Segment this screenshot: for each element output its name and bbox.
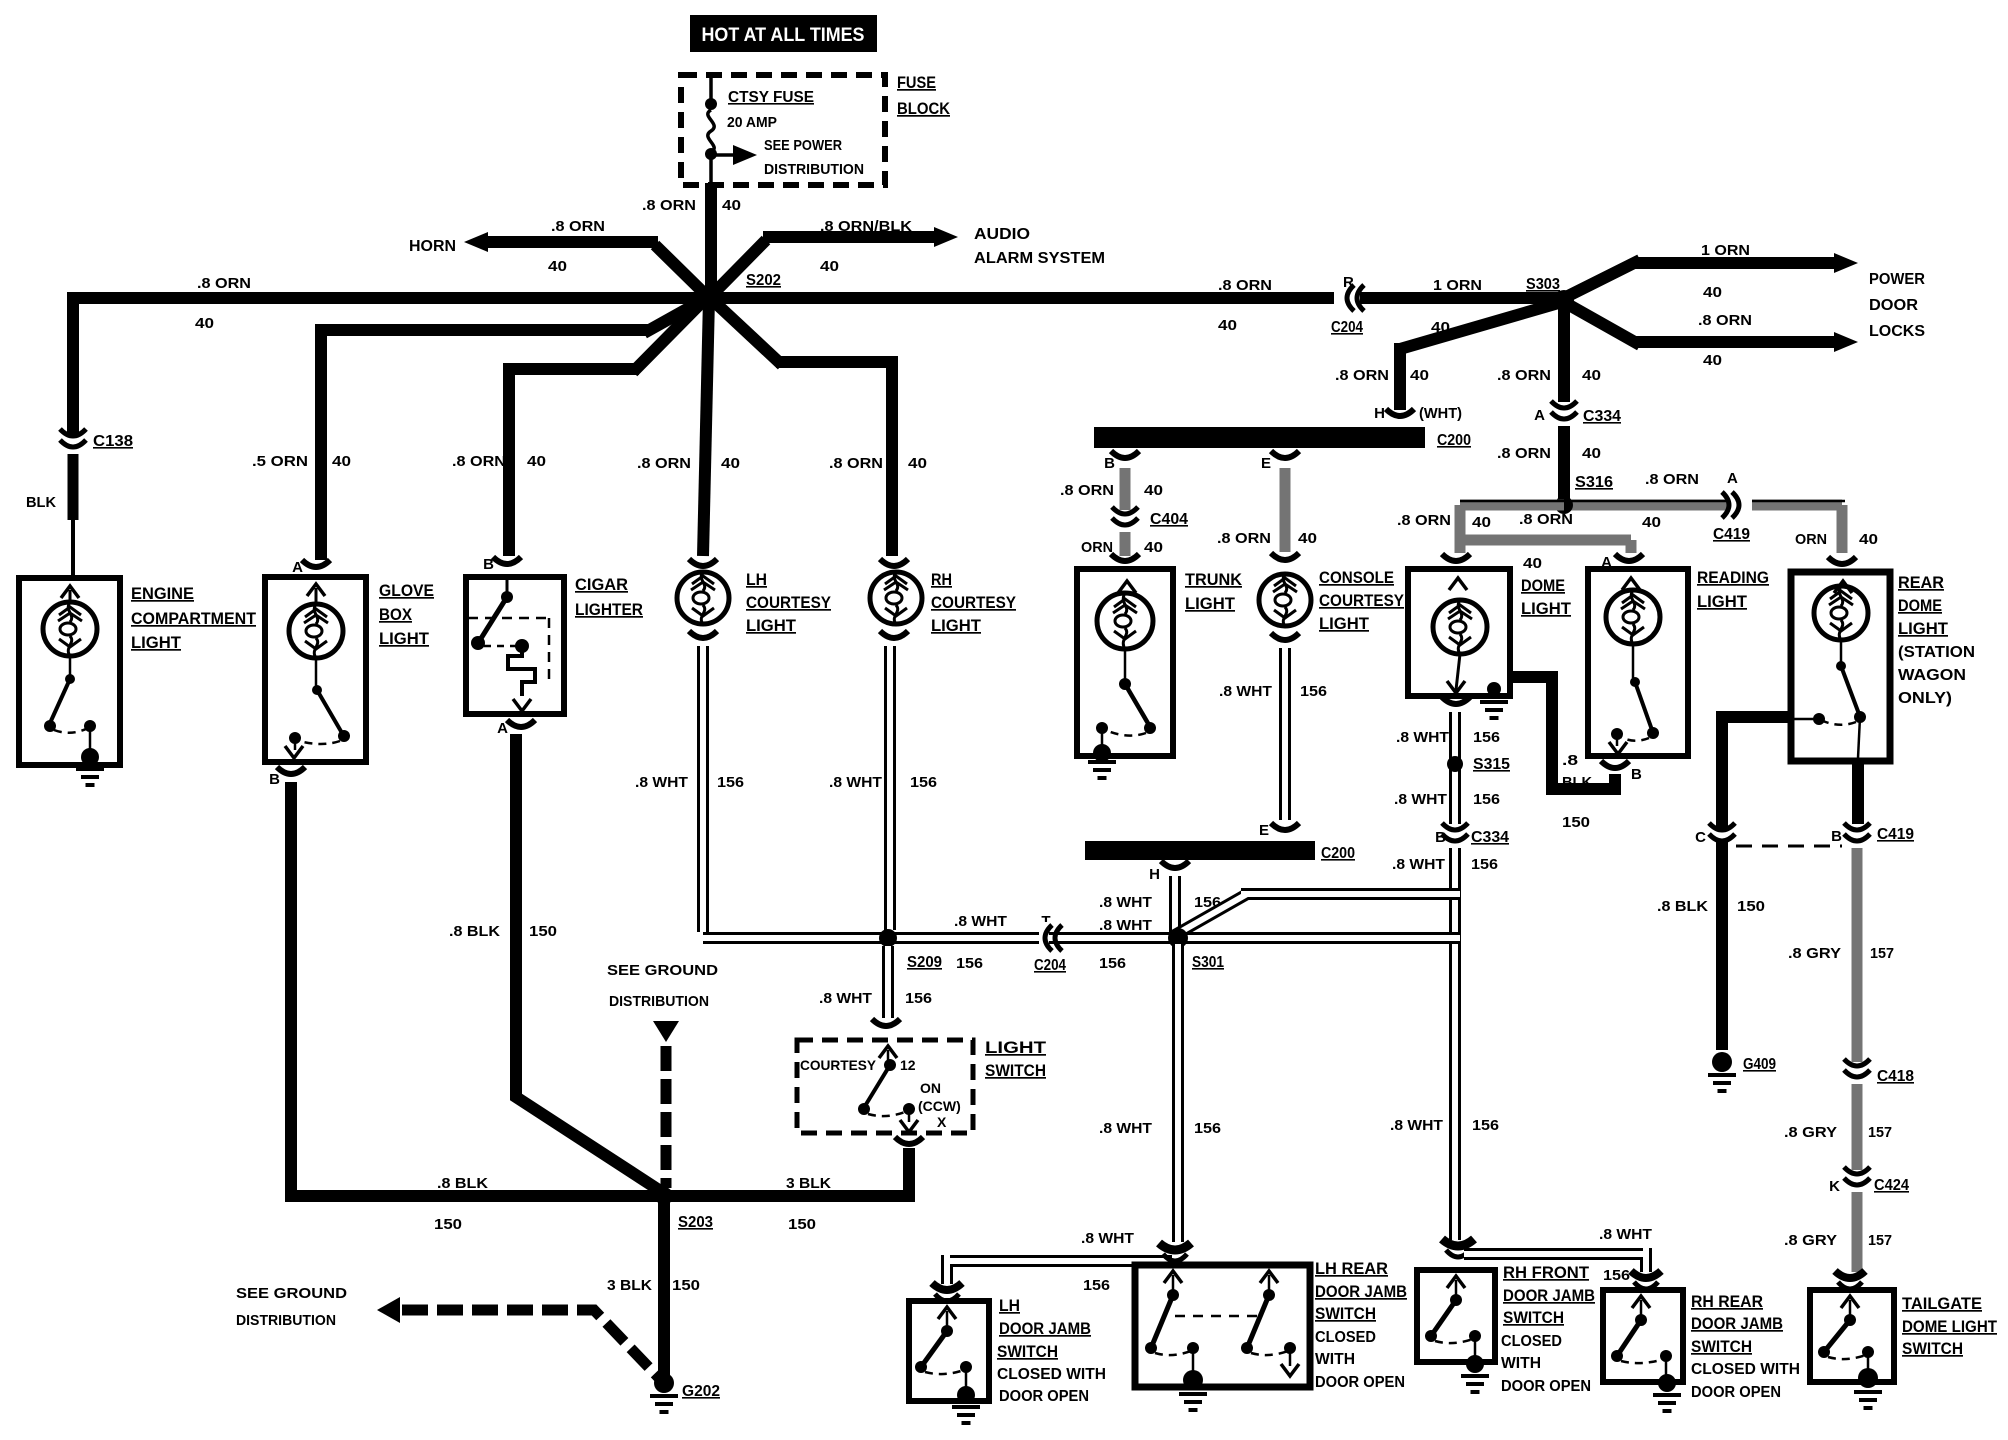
connector light switch input	[872, 1019, 900, 1026]
svg-text:150: 150	[1737, 898, 1765, 915]
svg-text:H: H	[1374, 405, 1385, 422]
svg-text:B: B	[1435, 829, 1446, 846]
LH rear door jamb switch	[1135, 1265, 1310, 1387]
wire ORN 40 C419 to rear dome light	[1752, 505, 1842, 553]
svg-text:156: 156	[717, 774, 744, 791]
svg-text:.8 BLK: .8 BLK	[1657, 898, 1708, 915]
wire rear dome light pin B stub	[1852, 758, 1864, 824]
wire 1 ORN 40 S303 to power door locks	[1562, 260, 1836, 299]
svg-text:CLOSED: CLOSED	[1315, 1329, 1376, 1346]
svg-text:SWITCH: SWITCH	[1503, 1308, 1564, 1327]
connector reading light pin B	[1601, 761, 1629, 768]
svg-text:.8 ORN: .8 ORN	[1497, 445, 1551, 462]
svg-text:BLK: BLK	[1562, 774, 1592, 791]
connector C200 lower bar	[1271, 823, 1299, 830]
svg-text:40: 40	[1472, 514, 1491, 531]
svg-text:A: A	[497, 720, 508, 737]
svg-text:COURTESY: COURTESY	[746, 593, 832, 612]
svg-text:DOOR JAMB: DOOR JAMB	[1691, 1314, 1783, 1333]
svg-text:156: 156	[1300, 683, 1327, 700]
wire .8 ORN 40 S202 to LH courtesy light	[703, 298, 709, 556]
svg-text:156: 156	[1194, 1120, 1221, 1137]
ground engine compartment light	[76, 769, 104, 785]
svg-text:C419: C419	[1877, 826, 1914, 843]
svg-text:40: 40	[722, 197, 741, 214]
ground G409	[1712, 1052, 1732, 1072]
svg-text:.8 ORN/BLK: .8 ORN/BLK	[820, 218, 912, 235]
svg-text:(WHT): (WHT)	[1419, 405, 1462, 422]
wire .8 WHT 156 S301 down to LH rear door jamb switch	[1172, 944, 1184, 1242]
wire .8 GRY 157 C418 to C424	[1852, 1084, 1863, 1170]
svg-text:40: 40	[548, 258, 567, 275]
svg-text:B: B	[269, 771, 280, 788]
wire .8 ORN 40 to reading light pin A	[1460, 540, 1631, 553]
svg-text:X: X	[937, 1114, 947, 1130]
svg-text:.8 ORN: .8 ORN	[1060, 482, 1114, 499]
svg-text:G409: G409	[1743, 1056, 1776, 1073]
wire .8 BLK 150 rear dome light to G409	[1722, 711, 1790, 1050]
svg-text:CIGAR: CIGAR	[575, 575, 628, 594]
svg-text:BLOCK: BLOCK	[897, 99, 951, 118]
svg-text:ON: ON	[920, 1080, 941, 1096]
wire .8 WHT 156 S315 to C334 B	[1449, 768, 1461, 824]
svg-text:ORN: ORN	[1795, 531, 1827, 548]
ground LH door jamb switch	[952, 1407, 980, 1423]
connector C200 pin E arcs	[1271, 451, 1299, 458]
svg-text:DISTRIBUTION: DISTRIBUTION	[236, 1312, 336, 1329]
svg-text:C200: C200	[1321, 845, 1355, 862]
svg-text:CLOSED WITH: CLOSED WITH	[1691, 1361, 1800, 1378]
svg-text:HOT AT ALL TIMES: HOT AT ALL TIMES	[702, 25, 865, 46]
svg-text:AUDIO: AUDIO	[974, 226, 1030, 243]
svg-text:.8 WHT: .8 WHT	[1099, 894, 1152, 911]
svg-text:.8 ORN: .8 ORN	[197, 275, 251, 292]
svg-text:S301: S301	[1192, 954, 1224, 971]
connector RH rear door jamb switch	[1631, 1271, 1661, 1278]
svg-text:LIGHT: LIGHT	[379, 629, 430, 648]
svg-text:.8 WHT: .8 WHT	[1099, 917, 1152, 934]
svg-text:.8 WHT: .8 WHT	[1390, 1117, 1443, 1134]
svg-text:40: 40	[1642, 514, 1661, 531]
svg-text:150: 150	[788, 1216, 816, 1233]
svg-text:DOOR OPEN: DOOR OPEN	[1315, 1374, 1405, 1391]
wire .8 WHT 156 RH courtesy to S209	[884, 646, 896, 930]
svg-text:C204: C204	[1034, 957, 1066, 974]
svg-text:.8 WHT: .8 WHT	[1599, 1226, 1652, 1243]
svg-text:S203: S203	[678, 1214, 713, 1231]
svg-text:S209: S209	[907, 954, 942, 971]
LH door jamb switch	[909, 1301, 989, 1401]
svg-text:157: 157	[1870, 945, 1894, 962]
svg-text:.8 WHT: .8 WHT	[1219, 683, 1272, 700]
svg-text:SWITCH: SWITCH	[985, 1061, 1046, 1080]
svg-text:DOOR OPEN: DOOR OPEN	[1501, 1378, 1591, 1395]
svg-text:SWITCH: SWITCH	[997, 1342, 1058, 1361]
svg-text:40: 40	[1523, 555, 1542, 572]
svg-text:DISTRIBUTION: DISTRIBUTION	[609, 993, 709, 1010]
svg-text:40: 40	[1582, 445, 1601, 462]
connector C419 pin C	[1706, 831, 1738, 841]
splice S316 and gray wire to C419 A	[1564, 500, 1728, 511]
connector C200 pin B arcs	[1111, 451, 1139, 458]
connector C424	[1841, 1175, 1873, 1185]
wire ORN 40 C404 to trunk light	[1120, 532, 1131, 556]
svg-text:.8 GRY: .8 GRY	[1784, 1124, 1837, 1141]
wire .8 WHT 156 branch to LH door jamb switch	[947, 1255, 1172, 1284]
svg-text:SEE GROUND: SEE GROUND	[607, 962, 718, 979]
svg-text:.8: .8	[1562, 752, 1578, 769]
svg-text:COURTESY: COURTESY	[800, 1057, 877, 1073]
svg-text:156: 156	[1473, 729, 1500, 746]
console courtesy light lamp	[1271, 553, 1299, 560]
svg-text:157: 157	[1868, 1124, 1892, 1141]
svg-text:RH REAR: RH REAR	[1691, 1292, 1763, 1311]
svg-text:TAILGATE: TAILGATE	[1902, 1294, 1982, 1313]
ground G202	[654, 1373, 674, 1393]
connector C200 lower pin H arcs	[1161, 861, 1189, 868]
svg-text:.5 ORN: .5 ORN	[252, 453, 308, 470]
svg-text:40: 40	[1218, 317, 1237, 334]
ground dome light case	[1487, 682, 1501, 696]
wire .8 WHT 156 LH courtesy to S209	[703, 646, 884, 938]
svg-text:.8 WHT: .8 WHT	[819, 990, 872, 1007]
svg-text:DISTRIBUTION: DISTRIBUTION	[764, 161, 864, 178]
svg-text:DOME: DOME	[1521, 576, 1565, 595]
svg-text:S303: S303	[1526, 276, 1560, 293]
svg-text:LIGHTER: LIGHTER	[575, 600, 643, 619]
svg-text:DOOR JAMB: DOOR JAMB	[999, 1319, 1091, 1338]
ground LH rear door jamb switch	[1179, 1394, 1207, 1410]
svg-text:G202: G202	[682, 1383, 720, 1400]
svg-text:.8 ORN: .8 ORN	[1497, 367, 1551, 384]
svg-text:LH: LH	[746, 570, 767, 589]
connector LH door jamb switch	[932, 1283, 962, 1290]
svg-text:DOOR: DOOR	[1869, 297, 1918, 314]
svg-text:150: 150	[434, 1216, 462, 1233]
svg-text:K: K	[1829, 1178, 1840, 1195]
wire .8 ORN 40 S202 to cigar lighter	[509, 294, 710, 556]
svg-text:A: A	[1534, 407, 1545, 424]
wire .8 ORN 40 S303 to power door locks	[1562, 301, 1836, 345]
svg-text:LIGHT: LIGHT	[931, 616, 982, 635]
svg-text:12: 12	[900, 1057, 916, 1073]
wire .8 WHT 156 dome light to S315	[1449, 712, 1461, 760]
svg-text:R: R	[1343, 274, 1354, 291]
connector C418	[1841, 1067, 1873, 1077]
svg-text:156: 156	[1083, 1277, 1110, 1294]
svg-text:DOME: DOME	[1898, 596, 1942, 615]
svg-text:150: 150	[1562, 814, 1590, 831]
svg-text:S315: S315	[1473, 756, 1510, 773]
svg-text:COURTESY: COURTESY	[1319, 591, 1405, 610]
connector cigar lighter pin A	[507, 720, 535, 727]
wire .8 GRY 157 C424 to tailgate dome light switch	[1852, 1192, 1863, 1272]
svg-text:DOOR JAMB: DOOR JAMB	[1503, 1286, 1595, 1305]
svg-text:B: B	[1104, 455, 1115, 472]
svg-text:DOOR OPEN: DOOR OPEN	[1691, 1384, 1781, 1401]
svg-text:C: C	[1695, 829, 1706, 846]
glove box light fixture	[302, 560, 330, 567]
svg-text:C424: C424	[1874, 1177, 1909, 1194]
splice S209	[879, 929, 897, 947]
wire .8 WHT 156 C334 B to S301	[1449, 848, 1461, 890]
svg-text:C200: C200	[1437, 432, 1471, 449]
svg-text:POWER: POWER	[1869, 271, 1925, 288]
svg-text:H: H	[1149, 866, 1160, 883]
svg-text:.8 ORN: .8 ORN	[1217, 530, 1271, 547]
svg-text:DOOR OPEN: DOOR OPEN	[999, 1388, 1089, 1405]
wire .8 ORN 40 bus S202 to C204	[709, 292, 1334, 304]
svg-text:40: 40	[908, 455, 927, 472]
svg-text:.8 ORN: .8 ORN	[829, 455, 883, 472]
svg-text:40: 40	[1144, 539, 1163, 556]
svg-text:A: A	[1727, 470, 1738, 487]
svg-text:40: 40	[1298, 530, 1317, 547]
splice S202	[699, 288, 719, 308]
svg-text:ORN: ORN	[1081, 539, 1113, 556]
ground RH front door jamb switch	[1461, 1376, 1489, 1392]
light switch internals	[879, 1046, 897, 1058]
svg-text:1 ORN: 1 ORN	[1701, 242, 1750, 259]
svg-text:BOX: BOX	[379, 605, 413, 624]
svg-text:150: 150	[672, 1277, 700, 1294]
svg-text:LIGHT: LIGHT	[985, 1038, 1047, 1057]
connector light switch output	[895, 1137, 923, 1144]
svg-text:150: 150	[529, 923, 557, 940]
svg-text:C419: C419	[1713, 526, 1750, 543]
svg-text:RH FRONT: RH FRONT	[1503, 1263, 1590, 1282]
RH front door jamb switch	[1417, 1270, 1495, 1362]
svg-text:156: 156	[956, 955, 983, 972]
reading light fixture	[1588, 569, 1688, 756]
wire .8 ORN 40 C334 to S316	[1558, 426, 1570, 500]
wire .8 ORN/BLK 40 to audio alarm system	[706, 237, 936, 301]
svg-text:40: 40	[1410, 367, 1429, 384]
svg-text:3 BLK: 3 BLK	[607, 1277, 652, 1294]
wire 3 BLK 150 S203 to G202	[658, 1196, 670, 1378]
splice S203	[655, 1187, 673, 1205]
see ground distribution arrow and dashed wire to S203	[653, 1021, 679, 1042]
wire .8 ORN 40 main bus left S202 to C138 corner	[73, 292, 715, 437]
svg-text:.8 WHT: .8 WHT	[1392, 856, 1445, 873]
svg-text:COURTESY: COURTESY	[931, 593, 1017, 612]
wire .8 ORN 40 to HORN	[482, 242, 712, 301]
svg-text:CTSY FUSE: CTSY FUSE	[728, 89, 814, 106]
svg-text:LIGHT: LIGHT	[1319, 614, 1370, 633]
svg-text:.8 BLK: .8 BLK	[437, 1175, 488, 1192]
svg-text:C418: C418	[1877, 1068, 1914, 1085]
svg-text:.8 GRY: .8 GRY	[1788, 945, 1841, 962]
connector C419 pin A	[1735, 489, 1745, 521]
wire .8 WHT 156 S209 to light switch	[882, 946, 894, 1018]
trunk light fixture	[1077, 569, 1173, 756]
svg-text:LIGHT: LIGHT	[1185, 594, 1236, 613]
svg-text:LIGHT: LIGHT	[1521, 599, 1572, 618]
svg-text:.8 WHT: .8 WHT	[1394, 791, 1447, 808]
wire fuse output to see-power-distribution arrow	[711, 153, 733, 157]
svg-text:LIGHT: LIGHT	[1697, 592, 1748, 611]
ground trunk light	[1088, 762, 1116, 778]
svg-text:40: 40	[1859, 531, 1878, 548]
svg-text:REAR: REAR	[1898, 573, 1944, 592]
rear dome light fixture	[1791, 572, 1890, 761]
wire .8 ORN 40 S202 to RH courtesy light	[707, 295, 892, 556]
connector C200 upper bar	[1094, 427, 1425, 448]
svg-text:DOME LIGHT: DOME LIGHT	[1902, 1317, 1998, 1336]
wire .8 ORN 40 S202 to glove box light	[321, 295, 712, 560]
svg-text:.8 ORN: .8 ORN	[1698, 312, 1752, 329]
svg-text:TRUNK: TRUNK	[1185, 570, 1243, 589]
svg-text:ONLY): ONLY)	[1898, 690, 1952, 707]
svg-text:.8 WHT: .8 WHT	[954, 913, 1007, 930]
svg-text:.8 ORN: .8 ORN	[642, 197, 696, 214]
svg-text:SWITCH: SWITCH	[1902, 1339, 1963, 1358]
svg-text:C204: C204	[1331, 319, 1363, 336]
svg-text:.8 ORN: .8 ORN	[1397, 512, 1451, 529]
svg-text:ALARM SYSTEM: ALARM SYSTEM	[974, 250, 1105, 267]
svg-text:40: 40	[1144, 482, 1163, 499]
connector glove box light pin B	[277, 767, 305, 774]
LH courtesy light lamp	[689, 559, 717, 566]
svg-text:.8 WHT: .8 WHT	[1099, 1120, 1152, 1137]
wire .8 ORN 40 S303 to C200 pin H	[1400, 302, 1562, 410]
ground tailgate dome light switch	[1854, 1392, 1882, 1408]
wire .8 ORN 40 S316 to dome light	[1460, 505, 1564, 553]
connector C404	[1109, 515, 1141, 525]
svg-text:B: B	[1831, 828, 1842, 845]
svg-text:1 ORN: 1 ORN	[1433, 277, 1482, 294]
svg-text:40: 40	[332, 453, 351, 470]
wire .8 WHT 156 S209 to S301 via C204	[884, 932, 1178, 944]
svg-text:READING: READING	[1697, 568, 1769, 587]
svg-text:E: E	[1259, 822, 1269, 839]
svg-text:20 AMP: 20 AMP	[727, 114, 777, 131]
svg-text:.8 ORN: .8 ORN	[1645, 471, 1699, 488]
svg-text:.8 ORN: .8 ORN	[452, 453, 506, 470]
wire .8 WHT 156 to RH rear door jamb switch	[1464, 1248, 1646, 1272]
svg-text:.8 WHT: .8 WHT	[1081, 1230, 1134, 1247]
svg-text:B: B	[1631, 766, 1642, 783]
svg-text:BLK: BLK	[26, 494, 56, 511]
connector tailgate dome light switch	[1835, 1271, 1865, 1278]
wire .8 WHT 156 S301 to RH front door jamb switch	[1449, 886, 1461, 1240]
svg-text:40: 40	[527, 453, 546, 470]
svg-text:SEE POWER: SEE POWER	[764, 137, 842, 154]
svg-text:.8 WHT: .8 WHT	[829, 774, 882, 791]
svg-text:S316: S316	[1575, 474, 1613, 491]
ground RH rear door jamb switch	[1653, 1395, 1681, 1411]
connector C200 pin H arcs	[1386, 409, 1414, 416]
svg-text:LIGHT: LIGHT	[1898, 619, 1949, 638]
svg-text:HORN: HORN	[409, 238, 456, 255]
dome light fixture	[1408, 569, 1510, 696]
svg-text:LIGHT: LIGHT	[131, 633, 182, 652]
cigar lighter fixture	[493, 557, 521, 564]
svg-text:WITH: WITH	[1501, 1355, 1541, 1372]
svg-text:156: 156	[1473, 791, 1500, 808]
svg-text:CLOSED: CLOSED	[1501, 1333, 1562, 1350]
wire .8 GRY 157 C419 to C418	[1852, 848, 1863, 1062]
wire C419 connector dashed link	[1736, 845, 1842, 848]
svg-text:LH REAR: LH REAR	[1315, 1259, 1388, 1278]
svg-text:DOOR JAMB: DOOR JAMB	[1315, 1282, 1407, 1301]
connector LH rear door jamb switch	[1159, 1243, 1191, 1250]
connector C334 pin A	[1548, 409, 1580, 419]
hot at all times label	[690, 15, 877, 52]
svg-text:156: 156	[1099, 955, 1126, 972]
svg-text:CLOSED WITH: CLOSED WITH	[997, 1366, 1106, 1383]
svg-text:40: 40	[1703, 352, 1722, 369]
wire .8 BLK 150 glove box light to S203	[285, 782, 664, 1196]
svg-text:ENGINE: ENGINE	[131, 584, 194, 603]
svg-text:SEE GROUND: SEE GROUND	[236, 1285, 347, 1302]
light switch dashed box	[797, 1040, 973, 1133]
connector C204	[1341, 282, 1351, 314]
connector RH front door jamb switch	[1442, 1239, 1474, 1246]
svg-text:.8 ORN: .8 ORN	[1519, 511, 1573, 528]
svg-text:3 BLK: 3 BLK	[786, 1175, 831, 1192]
wire .8 ORN 40 S303 to C334 pin A	[1558, 300, 1570, 402]
wire .8 ORN 40 C200 B to C404	[1120, 468, 1131, 510]
wire .8 BLK 150 cigar lighter to S203	[516, 734, 662, 1192]
svg-text:C334: C334	[1471, 829, 1509, 846]
engine compartment light fixture	[19, 578, 120, 765]
svg-text:S202: S202	[746, 272, 781, 289]
svg-text:C138: C138	[93, 433, 133, 450]
wire 3 BLK 150 light switch to S203	[664, 1148, 915, 1196]
RH rear door jamb switch	[1603, 1290, 1683, 1382]
svg-text:WAGON: WAGON	[1898, 667, 1966, 684]
svg-text:.8 ORN: .8 ORN	[1218, 277, 1272, 294]
svg-text:40: 40	[721, 455, 740, 472]
svg-text:COMPARTMENT: COMPARTMENT	[131, 609, 257, 628]
svg-text:CONSOLE: CONSOLE	[1319, 568, 1394, 587]
svg-text:40: 40	[1703, 284, 1722, 301]
connector C138	[57, 437, 89, 447]
svg-text:C334: C334	[1583, 408, 1621, 425]
wire .8 BLK 150 dome light to reading light pin B	[1508, 671, 1615, 795]
svg-text:.8 WHT: .8 WHT	[1396, 729, 1449, 746]
svg-text:A: A	[1601, 554, 1612, 571]
svg-text:.8 WHT: .8 WHT	[635, 774, 688, 791]
svg-text:40: 40	[195, 315, 214, 332]
RH courtesy light lamp	[880, 559, 908, 566]
svg-text:SWITCH: SWITCH	[1691, 1337, 1752, 1356]
svg-text:156: 156	[910, 774, 937, 791]
wire .8 ORN 40 fuse to S202	[705, 183, 717, 298]
wire BLK C138 to engine compartment light	[68, 454, 79, 520]
see ground distribution dashed wire to G202	[377, 1297, 400, 1323]
svg-text:40: 40	[1582, 367, 1601, 384]
svg-text:156: 156	[1471, 856, 1498, 873]
svg-text:157: 157	[1868, 1232, 1892, 1249]
connector C334 pin B	[1439, 831, 1471, 841]
wire .8 WHT 156 C200 H to S301	[1169, 876, 1181, 934]
svg-text:.8 BLK: .8 BLK	[449, 923, 500, 940]
svg-text:(CCW): (CCW)	[918, 1098, 961, 1114]
svg-text:WITH: WITH	[1315, 1351, 1355, 1368]
svg-text:156: 156	[1603, 1267, 1630, 1284]
wire .8 ORN 40 C200 E to console courtesy light	[1280, 468, 1291, 552]
svg-text:.8 ORN: .8 ORN	[1335, 367, 1389, 384]
tailgate dome light switch	[1810, 1290, 1894, 1382]
svg-text:LH: LH	[999, 1296, 1020, 1315]
svg-text:RH: RH	[931, 570, 952, 589]
svg-text:LIGHT: LIGHT	[746, 616, 797, 635]
connector C419 pin B	[1841, 831, 1873, 841]
connector C204 pin T	[1039, 922, 1049, 954]
svg-text:.8 ORN: .8 ORN	[637, 455, 691, 472]
